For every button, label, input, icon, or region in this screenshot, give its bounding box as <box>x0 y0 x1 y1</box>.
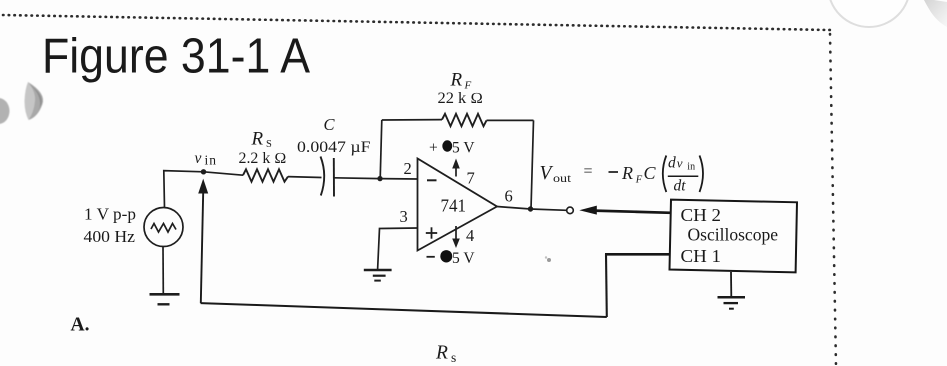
wire feedback top right <box>487 119 534 121</box>
arrow from CH2 to probe <box>579 206 671 215</box>
svg-text:2: 2 <box>404 159 412 178</box>
svg-text:741: 741 <box>441 196 467 216</box>
source waveform symbol <box>151 224 176 233</box>
oscilloscope ground stem <box>730 272 732 297</box>
label RS <box>251 129 273 150</box>
label -5 V supply with blob <box>427 250 476 267</box>
dotted border top <box>3 15 831 30</box>
scan artifact: top-right light circle <box>828 0 910 27</box>
label A. <box>71 315 90 336</box>
source VS circle <box>144 208 183 247</box>
pin label 7 <box>467 168 475 187</box>
label RF <box>450 69 472 91</box>
wire node to probe circle <box>531 209 567 210</box>
ground (oscilloscope) <box>718 297 746 309</box>
svg-text:3: 3 <box>400 207 408 226</box>
svg-text:22 k Ω: 22 k Ω <box>438 90 484 107</box>
svg-text:C: C <box>324 115 336 134</box>
label CH 2 <box>681 205 722 225</box>
svg-text:A.: A. <box>71 315 90 336</box>
wire feedback top left <box>382 119 442 121</box>
pin label 6 <box>505 187 513 206</box>
scan artifact: left-edge grey half disc <box>0 98 10 124</box>
op-amp plus sign <box>426 227 437 238</box>
svg-text:0.0047 µF: 0.0047 µF <box>297 139 371 156</box>
wire vin to RS <box>204 172 244 175</box>
svg-text:out: out <box>553 173 572 185</box>
svg-text:6: 6 <box>505 187 513 206</box>
svg-text:C: C <box>644 163 657 183</box>
wire source top to vin node <box>164 171 204 208</box>
label C <box>324 115 336 134</box>
wire RS to C <box>288 176 322 179</box>
op-amp label 741 <box>441 196 467 216</box>
wire feedback down to output <box>531 120 534 209</box>
svg-text:V: V <box>540 163 554 184</box>
resistor RS zigzag <box>243 169 288 181</box>
label 1 V p-p / 400 Hz <box>84 205 137 247</box>
svg-text:R: R <box>621 163 633 183</box>
wire CH1 to left <box>605 253 670 256</box>
svg-text:5 V: 5 V <box>452 250 475 267</box>
resistor RF zigzag <box>442 114 487 126</box>
title: Figure 31-1 A <box>42 30 310 84</box>
svg-text:400 Hz: 400 Hz <box>84 227 136 246</box>
label 22 kOhm <box>438 90 484 107</box>
output node dot <box>528 206 533 211</box>
svg-text:s: s <box>451 350 456 365</box>
pin label 2 <box>404 159 412 178</box>
wire junction up to feedback <box>380 120 382 179</box>
svg-text:dt: dt <box>674 177 687 194</box>
svg-text:v: v <box>677 155 683 170</box>
svg-text:R: R <box>450 69 463 90</box>
label Rs (next figure, bottom) <box>435 343 456 366</box>
wire pin3 to ground corner <box>378 228 418 270</box>
label vin <box>195 150 218 168</box>
ground (source) <box>150 294 180 304</box>
wire bottom return <box>201 303 607 317</box>
svg-text:F: F <box>635 174 643 185</box>
wire up to vin arrow <box>198 179 208 304</box>
label 0.0047 uF <box>297 139 371 156</box>
dotted border right <box>830 34 836 366</box>
wire down from CH1 <box>605 254 608 317</box>
label +5 V supply with blob <box>429 140 475 157</box>
probe open circle <box>567 207 574 214</box>
svg-text:v: v <box>195 150 202 167</box>
svg-text:in: in <box>687 162 695 173</box>
svg-text:R: R <box>251 129 264 150</box>
svg-text:CH 1: CH 1 <box>681 246 722 266</box>
capacitor C plates <box>321 157 335 197</box>
label CH 1 <box>681 246 722 266</box>
svg-text:Oscilloscope: Oscilloscope <box>688 224 779 244</box>
ground (pin3) <box>364 270 392 281</box>
label 2.2 kOhm <box>239 150 287 167</box>
svg-text:4: 4 <box>466 226 474 245</box>
svg-text:in: in <box>205 153 218 168</box>
node junction dot (pin2 feedback) <box>377 176 382 181</box>
pin label 4 <box>466 226 474 245</box>
wire opamp output to node <box>497 207 531 210</box>
wire C to node2 <box>334 177 380 180</box>
node vin dot <box>201 169 206 174</box>
svg-text:S: S <box>266 139 272 150</box>
svg-text:CH 2: CH 2 <box>681 205 722 225</box>
svg-text:d: d <box>668 154 676 171</box>
wire source bottom to ground <box>162 247 164 294</box>
scan artifact: left crescent blob <box>25 82 44 120</box>
oscilloscope box <box>670 200 798 273</box>
pin 7 arrow up <box>452 159 460 177</box>
svg-text:7: 7 <box>467 168 475 187</box>
scan artifact: top-right page curl shadow <box>924 0 947 27</box>
scan speck <box>545 256 551 262</box>
svg-text:5 V: 5 V <box>452 140 475 157</box>
svg-text:Figure 31-1 A: Figure 31-1 A <box>42 30 310 84</box>
pin 4 arrow down <box>452 226 460 248</box>
svg-text:1 V p-p: 1 V p-p <box>84 205 136 224</box>
svg-text:2.2 k Ω: 2.2 k Ω <box>239 150 287 167</box>
op-amp minus sign <box>427 179 437 181</box>
svg-text:+: + <box>429 140 438 157</box>
svg-text:R: R <box>435 343 448 364</box>
Vout formula <box>540 154 704 194</box>
op-amp U1 triangle <box>418 159 498 251</box>
label Oscilloscope <box>688 224 779 244</box>
svg-text:=: = <box>584 163 593 180</box>
wire junction to pin2 <box>380 178 417 180</box>
pin label 3 <box>400 207 408 226</box>
